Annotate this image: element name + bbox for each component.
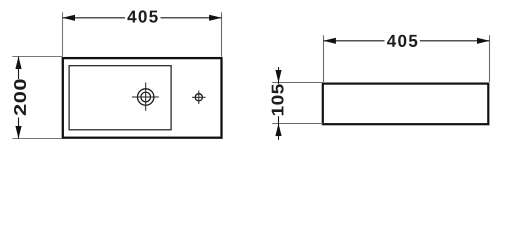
dim 200: up arrowhead	[15, 57, 21, 70]
dim 105: up arrowhead (bottom, outside)	[275, 124, 281, 137]
dim 405 top-view: value label	[127, 10, 157, 22]
front view: body outline	[323, 84, 489, 125]
dim 405 front-view: left arrowhead	[323, 38, 336, 44]
dim 105: bottom extension line	[272, 123, 323, 125]
dim 405 top-view: dimension line	[63, 17, 222, 19]
tap hole circle inner	[141, 92, 151, 102]
dim 405 front-view: right extension line	[489, 35, 491, 82]
dim 200: top extension line	[12, 56, 62, 58]
dim 200: down arrowhead	[15, 126, 21, 139]
dim 105: down arrowhead (top, outside)	[275, 70, 281, 83]
dim 405 front-view: right arrowhead	[477, 38, 490, 44]
tap hole circle outer	[138, 89, 154, 105]
dim 105: value label (rotated)	[272, 84, 284, 115]
dim 200: dimension line	[18, 57, 20, 139]
dim 405 top-view: right extension line	[221, 12, 223, 56]
top view: basin outer rim	[63, 58, 222, 138]
dim 405 top-view: right arrowhead	[209, 15, 222, 21]
dim 105: label background mask	[270, 84, 285, 116]
dim 405 front-view: left extension line	[323, 35, 325, 82]
overflow hole circle	[195, 94, 202, 101]
dim 405 top-view: left extension line	[62, 12, 64, 56]
top view: basin inner bowl	[69, 66, 171, 130]
dim 200: bottom extension line	[12, 138, 62, 140]
dim 200: value label (rotated)	[14, 79, 26, 115]
dim 105: top extension line	[272, 82, 323, 84]
overflow hole crosshair	[192, 91, 206, 104]
dim 105: upper leader line	[278, 67, 280, 83]
tap hole crosshair	[132, 83, 159, 111]
dim 405 top-view: left arrowhead	[63, 15, 76, 21]
dim 105: lower leader line	[278, 124, 280, 140]
dim 405 front-view: value label	[387, 35, 417, 47]
dim 405 front-view: dimension line	[323, 40, 489, 42]
dim 105: inner dimension line	[278, 83, 280, 124]
